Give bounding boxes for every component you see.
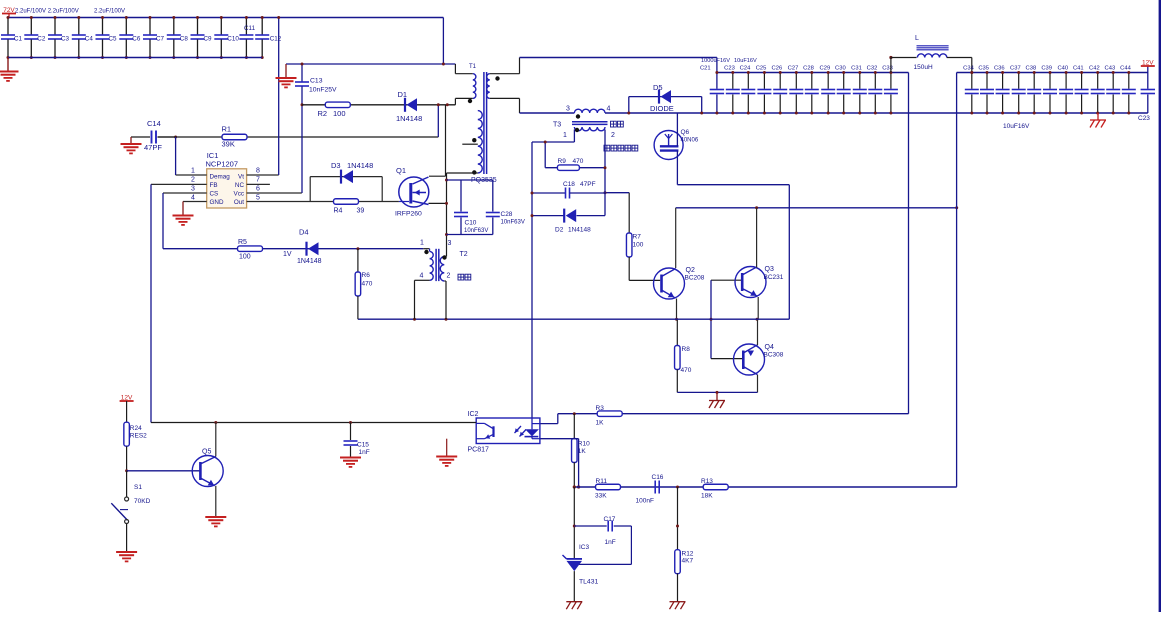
svg-text:1nF: 1nF — [605, 539, 616, 546]
svg-text:R1: R1 — [222, 125, 232, 134]
T1 phase dot secondary — [495, 76, 499, 80]
svg-text:IRFP260: IRFP260 — [395, 211, 422, 218]
pin 4 GND — [183, 201, 207, 203]
svg-text:C3: C3 — [61, 36, 70, 43]
svg-text:R4: R4 — [334, 208, 343, 215]
wire secondary top step — [490, 73, 520, 75]
svg-text:C18: C18 — [563, 181, 575, 188]
capacitor C43 output bank2 — [1112, 73, 1114, 89]
transistor Q4 BC308 — [711, 358, 742, 360]
opto led — [531, 418, 533, 429]
svg-text:47PF: 47PF — [144, 143, 162, 152]
svg-text:C39: C39 — [1041, 66, 1052, 72]
capacitor C33 output bank1 — [890, 73, 892, 89]
svg-text:4: 4 — [607, 106, 611, 113]
node C14/R1 junction — [174, 136, 177, 139]
ground G-opto emitter — [446, 439, 448, 456]
svg-text:C1: C1 — [14, 36, 23, 43]
pin 6 Vcc — [247, 192, 302, 194]
wire emitter ground rail — [677, 391, 757, 393]
opto phototransistor — [476, 422, 484, 424]
wire Q3/Q4 base tie — [710, 280, 712, 358]
svg-text:R6: R6 — [362, 272, 371, 279]
wire snubber return corner — [437, 105, 439, 137]
capacitor C42 output bank2 — [1097, 73, 1099, 89]
svg-text:4: 4 — [191, 195, 195, 202]
wire 15V sense drop — [956, 73, 958, 487]
resistor R1 39K — [158, 136, 439, 138]
svg-text:C10: C10 — [465, 220, 477, 227]
wire Q3 emitter drop — [757, 297, 759, 319]
wire Q2 emitter drop — [676, 299, 678, 320]
capacitor C31 output bank1 — [859, 73, 861, 89]
svg-text:C29: C29 — [820, 66, 831, 72]
capacitor C23 at 12V point — [1147, 66, 1149, 89]
wire opto cathode drop — [540, 438, 579, 440]
svg-text:C25: C25 — [756, 66, 767, 72]
wire output bank2 top bus — [957, 72, 1148, 74]
svg-text:40N06: 40N06 — [681, 138, 699, 144]
optocoupler IC2 PC817 box — [476, 418, 540, 444]
capacitor C36 output bank2 — [1002, 73, 1004, 89]
svg-text:1K: 1K — [596, 420, 605, 427]
svg-text:C8: C8 — [180, 36, 189, 43]
svg-text:70KD: 70KD — [134, 498, 151, 505]
svg-text:C40: C40 — [1057, 66, 1068, 72]
svg-text:C42: C42 — [1089, 66, 1100, 72]
svg-text:BC308: BC308 — [764, 352, 784, 359]
svg-text:TL431: TL431 — [579, 579, 598, 586]
svg-text:10uF16V: 10uF16V — [734, 58, 757, 64]
capacitor C29 output bank1 — [827, 73, 829, 89]
capacitor C34 output bank2 — [971, 73, 973, 89]
svg-text:R12: R12 — [682, 551, 694, 558]
svg-text:CS: CS — [210, 191, 219, 198]
wire Q1 drain — [429, 175, 446, 177]
resistor R2 100 snubber — [302, 104, 455, 106]
T1 phase dot aux tap — [472, 138, 476, 142]
capacitor C27 output bank1 — [795, 73, 797, 89]
svg-text:R24: R24 — [130, 425, 142, 432]
capacitor C5 — [102, 18, 104, 35]
mosfet Q1 IRFP260 — [399, 177, 429, 207]
IC3 TL431 — [567, 558, 583, 560]
wire pin1 to R1 node — [175, 137, 177, 175]
wire T2 secondary bottom — [444, 280, 446, 282]
svg-text:C15: C15 — [357, 442, 369, 449]
T2 phase dot primary — [424, 250, 428, 254]
wire output bank1 top bus — [717, 72, 909, 74]
svg-text:100: 100 — [633, 242, 644, 249]
svg-text:D3: D3 — [331, 161, 341, 170]
svg-text:PC817: PC817 — [468, 447, 490, 454]
svg-text:Vt: Vt — [238, 174, 244, 181]
wire FB feedback line — [151, 422, 476, 424]
capacitor C15 1nF — [350, 423, 352, 441]
svg-text:4: 4 — [420, 273, 424, 280]
svg-text:3: 3 — [191, 186, 195, 193]
svg-text:C44: C44 — [1120, 66, 1131, 72]
ground G5 Q5 emitter — [205, 516, 226, 518]
resistor R7 100 — [605, 192, 629, 194]
ground G-S1 — [116, 551, 137, 553]
svg-text:10nF63V: 10nF63V — [501, 220, 525, 226]
transformer T3 bottom winding — [574, 127, 605, 131]
wire drive-rail drop — [788, 185, 790, 320]
wire Q4 collector — [757, 319, 759, 345]
wire Q5 collector — [215, 423, 217, 457]
svg-text:BC231: BC231 — [764, 274, 784, 281]
capacitor C35 output bank2 — [986, 73, 988, 89]
capacitor C7 — [149, 18, 151, 35]
svg-text:C24: C24 — [740, 66, 751, 72]
svg-text:C21: C21 — [700, 66, 711, 72]
capacitor C13 Vcc — [301, 64, 303, 82]
wire input bank bottom bus — [8, 57, 262, 59]
svg-text:R3: R3 — [596, 405, 605, 412]
svg-text:C41: C41 — [1073, 66, 1084, 72]
transformer T2 secondary winding — [440, 257, 444, 282]
wire aux bottom pin — [447, 172, 478, 174]
capacitor C32 output bank1 — [874, 73, 876, 89]
capacitor C10 10nF63V — [460, 180, 462, 212]
transistor Q5 — [127, 470, 200, 472]
transformer T1 core — [483, 72, 485, 174]
svg-text:C17: C17 — [604, 516, 616, 523]
svg-text:R7: R7 — [633, 234, 642, 241]
svg-text:R5: R5 — [238, 239, 247, 246]
resistor R4 39 — [334, 199, 359, 205]
svg-text:C5: C5 — [109, 36, 118, 43]
svg-text:NCP1207: NCP1207 — [206, 160, 239, 169]
wire collector line to 12V sense — [676, 207, 957, 209]
transformer T1 aux winding — [478, 111, 482, 173]
svg-text:150uH: 150uH — [914, 64, 933, 71]
svg-text:R9: R9 — [558, 158, 567, 165]
pin 3 CS — [163, 192, 207, 194]
svg-text:Q6: Q6 — [681, 129, 690, 136]
IC U1 NCP1207 body — [207, 169, 247, 208]
switch S1 — [126, 471, 128, 497]
svg-text:C35: C35 — [978, 66, 989, 72]
capacitor C10 rail bottom — [447, 234, 493, 236]
wire FB net vertical — [150, 184, 152, 422]
svg-text:33K: 33K — [595, 493, 607, 500]
svg-text:7: 7 — [256, 177, 260, 184]
T1 phase dot primary — [468, 99, 472, 103]
transformer T3 top winding — [574, 109, 605, 113]
svg-text:C11: C11 — [244, 25, 256, 32]
pin 2 FB — [151, 183, 207, 185]
wire T3 pin2 drop — [604, 130, 606, 216]
ground chassis output bank — [1097, 113, 1099, 120]
svg-text:C32: C32 — [867, 66, 878, 72]
svg-text:D4: D4 — [299, 228, 309, 237]
ground G2 aux rail — [285, 64, 287, 78]
capacitor C38 output bank2 — [1033, 73, 1035, 89]
wire TL431 cathode branch — [573, 487, 575, 559]
svg-text:2.2uF/100V 2.2uF/100V: 2.2uF/100V 2.2uF/100V — [15, 9, 79, 15]
ground G1 input bank — [7, 58, 9, 72]
svg-text:C13: C13 — [310, 78, 323, 85]
capacitor C41 output bank2 — [1081, 73, 1083, 89]
capacitor C9 — [197, 18, 199, 35]
wire Q1 source — [429, 202, 447, 204]
pin 5 Out — [247, 201, 311, 203]
svg-text:Demag: Demag — [210, 174, 231, 181]
resistor R6 470 — [357, 249, 359, 272]
wire primary bottom step — [454, 98, 456, 104]
ground chassis TL431 — [566, 601, 582, 603]
svg-text:C6: C6 — [132, 36, 141, 43]
svg-text:2: 2 — [447, 273, 451, 280]
svg-text:GND: GND — [210, 199, 224, 206]
wire secondary output top line — [520, 57, 717, 59]
wire 12V sense drop — [908, 73, 910, 414]
sheet border right edge — [1159, 0, 1161, 612]
wire Q4 emitter — [757, 375, 759, 393]
svg-text:R10: R10 — [578, 441, 590, 448]
capacitor C2 — [30, 18, 32, 35]
svg-text:C16: C16 — [652, 474, 664, 481]
svg-text:R8: R8 — [682, 346, 691, 353]
svg-text:Q1: Q1 — [396, 166, 406, 175]
capacitor C21 — [716, 58, 718, 89]
svg-text:C9: C9 — [204, 36, 213, 43]
wire source/aux vertical — [446, 173, 448, 257]
capacitor C25 output bank1 — [763, 73, 765, 89]
wire secondary bottom step — [490, 97, 520, 99]
capacitor C1 — [7, 18, 9, 35]
svg-text:D2: D2 — [555, 227, 564, 234]
diode D3 1N4148 gate — [310, 176, 382, 178]
svg-text:C27: C27 — [788, 66, 799, 72]
wire 72V top bus — [8, 17, 443, 19]
resistor R13 18K — [703, 484, 728, 490]
svg-text:Q5: Q5 — [202, 449, 211, 456]
T2 phase dot secondary — [442, 255, 446, 259]
capacitor C28 output bank1 — [811, 73, 813, 89]
svg-text:C26: C26 — [772, 66, 783, 72]
svg-text:BC208: BC208 — [685, 275, 705, 282]
wire T3 to output ground bus — [605, 112, 1148, 114]
svg-text:1N4148: 1N4148 — [347, 161, 373, 170]
svg-text:D5: D5 — [653, 83, 663, 92]
resistor R5 100 — [163, 248, 423, 250]
capacitor C37 output bank2 — [1018, 73, 1020, 89]
ground G14 for C14 — [130, 137, 132, 144]
transformer T1 primary winding — [473, 74, 476, 99]
wire divider line R11 R13 — [574, 486, 956, 488]
svg-text:1N4148: 1N4148 — [396, 114, 422, 123]
svg-text:18K: 18K — [701, 493, 713, 500]
capacitor C17 1nF — [574, 525, 606, 527]
svg-text:D1: D1 — [398, 90, 408, 99]
svg-text:100nF: 100nF — [636, 498, 654, 505]
svg-text:R11: R11 — [596, 478, 608, 485]
svg-text:C30: C30 — [835, 66, 846, 72]
svg-text:Vcc: Vcc — [234, 191, 245, 198]
wire D5 right leg — [701, 97, 703, 113]
svg-text:39K: 39K — [222, 140, 235, 149]
svg-text:Q4: Q4 — [765, 344, 774, 351]
wire T3 pin1 drop — [573, 130, 575, 143]
capacitor C18 47PF — [532, 192, 566, 194]
wire Vt vertical to top bus — [278, 18, 280, 176]
capacitor C10 — [220, 18, 222, 35]
wire secondary return line to T3 — [520, 112, 575, 114]
T3 phase dots — [576, 114, 580, 118]
wire drive rail — [358, 318, 789, 320]
capacitor C24 output bank1 — [747, 73, 749, 89]
svg-text:T1: T1 — [469, 64, 477, 70]
wire Q6 source — [676, 151, 678, 185]
svg-text:4K7: 4K7 — [682, 558, 694, 565]
svg-text:47PF: 47PF — [580, 181, 596, 188]
svg-text:C28: C28 — [803, 66, 814, 72]
wire Q5 emitter — [215, 486, 217, 517]
wire Q6 drain — [676, 113, 678, 146]
capacitor C26 output bank1 — [779, 73, 781, 89]
svg-text:IC2: IC2 — [468, 411, 479, 418]
diode D5 output — [629, 96, 702, 98]
wire opto feed vertical — [531, 142, 533, 418]
svg-text:Out: Out — [234, 199, 244, 206]
svg-text:10nF25V: 10nF25V — [309, 87, 337, 94]
capacitor C14 — [131, 136, 150, 138]
wire 72V bus drop to primary — [442, 18, 444, 65]
svg-text:DIODE: DIODE — [650, 104, 674, 113]
svg-text:1V: 1V — [283, 251, 292, 258]
wire CS corner — [162, 193, 164, 249]
svg-text:10uF16V: 10uF16V — [1003, 123, 1030, 130]
svg-text:1: 1 — [420, 240, 424, 247]
transformer T1 secondary winding — [487, 74, 490, 99]
svg-text:C14: C14 — [147, 119, 161, 128]
wire Q1 gate — [311, 201, 399, 203]
svg-text:C2: C2 — [37, 36, 46, 43]
svg-text:RES2: RES2 — [130, 433, 147, 440]
transistor Q2 BC208 — [629, 279, 660, 281]
svg-text:FB: FB — [210, 182, 218, 189]
capacitor C11 — [245, 18, 247, 35]
svg-text:C43: C43 — [1105, 66, 1116, 72]
capacitor C40 output bank2 — [1065, 73, 1067, 89]
svg-text:1nF: 1nF — [359, 449, 370, 456]
transformer T3 core — [572, 121, 608, 123]
wire primary-top rail — [286, 63, 455, 65]
capacitor C3 — [54, 18, 56, 35]
capacitor C23 output bank1 — [732, 73, 734, 89]
capacitor C39 output bank2 — [1049, 73, 1051, 89]
ground G15 — [340, 457, 361, 459]
svg-text:100: 100 — [239, 254, 251, 261]
T1 phase dot aux bottom — [472, 170, 476, 174]
wire aux middle tap stub — [462, 143, 478, 145]
wire Q6 source rail — [677, 184, 789, 186]
svg-text:1N4148: 1N4148 — [297, 258, 322, 265]
capacitor C30 output bank1 — [843, 73, 845, 89]
svg-text:IC3: IC3 — [579, 544, 590, 551]
capacitor C4 — [78, 18, 80, 35]
svg-text:10nF63V: 10nF63V — [464, 228, 488, 234]
svg-text:T2: T2 — [460, 251, 468, 258]
svg-text:2.2uF/100V: 2.2uF/100V — [94, 9, 125, 15]
svg-text:6: 6 — [256, 186, 260, 193]
svg-text:470: 470 — [573, 158, 584, 165]
svg-text:C34: C34 — [963, 66, 974, 72]
svg-text:S1: S1 — [134, 484, 142, 491]
transistor Q3 BC231 — [711, 279, 741, 281]
svg-text:C23: C23 — [724, 66, 735, 72]
svg-text:R13: R13 — [701, 478, 713, 485]
svg-text:1: 1 — [191, 168, 195, 175]
svg-text:C36: C36 — [994, 66, 1005, 72]
diode D1 1N4148 snubber — [404, 98, 406, 112]
capacitor C12 — [261, 18, 263, 35]
svg-text:C4: C4 — [85, 36, 94, 43]
svg-text:C28: C28 — [501, 211, 513, 218]
resistor R12 4K7 — [675, 550, 681, 574]
wire Q3 collector — [756, 208, 758, 268]
svg-text:Q3: Q3 — [765, 266, 774, 273]
svg-text:1: 1 — [563, 132, 567, 139]
svg-text:470: 470 — [681, 367, 692, 374]
svg-text:2: 2 — [611, 132, 615, 139]
resistor R8 470 — [676, 319, 678, 345]
svg-text:5: 5 — [256, 195, 260, 202]
wire opto top pin corner — [557, 414, 559, 424]
capacitor C16 100nF — [654, 481, 656, 494]
capacitor C6 — [125, 18, 127, 35]
diode D2 1N4148 gate clamp — [532, 215, 564, 217]
pin 8 Vt — [247, 174, 279, 176]
capacitor C28 10nF63V — [492, 180, 494, 212]
svg-text:T3: T3 — [553, 122, 561, 129]
svg-text:39: 39 — [357, 208, 365, 215]
transformer T2 primary winding — [423, 248, 429, 250]
capacitor C8 — [173, 18, 175, 35]
svg-text:C38: C38 — [1026, 66, 1037, 72]
svg-text:1000uF16V: 1000uF16V — [701, 58, 730, 64]
capacitor C44 output bank2 — [1128, 73, 1130, 89]
svg-text:3: 3 — [566, 106, 570, 113]
svg-text:3: 3 — [448, 240, 452, 247]
svg-text:C23: C23 — [1138, 115, 1150, 122]
resistor R24 RES2 — [126, 401, 128, 422]
wire R12 branch — [677, 487, 679, 550]
ground chassis driver stage — [716, 392, 718, 400]
svg-text:C31: C31 — [851, 66, 862, 72]
wire Q2 collector — [675, 208, 677, 268]
resistor R9 470 T3 damp — [544, 142, 546, 168]
resistor R3 1K opto feed — [558, 413, 909, 415]
diode D4 1N4148 — [305, 242, 307, 256]
wire D5 left leg — [628, 97, 630, 113]
ground G4 IC1 GND pin — [182, 202, 184, 216]
inductor L 150uH — [889, 56, 892, 59]
mosfet Q6 40N06 — [654, 131, 683, 160]
svg-text:Q2: Q2 — [686, 267, 695, 274]
svg-text:R2: R2 — [318, 109, 328, 118]
svg-text:C7: C7 — [156, 36, 165, 43]
wire primary top step — [454, 64, 456, 74]
pin 7 NC — [247, 183, 270, 185]
svg-text:100: 100 — [333, 109, 346, 118]
svg-text:L: L — [915, 35, 919, 42]
svg-text:C37: C37 — [1010, 66, 1021, 72]
svg-text:2: 2 — [191, 177, 195, 184]
